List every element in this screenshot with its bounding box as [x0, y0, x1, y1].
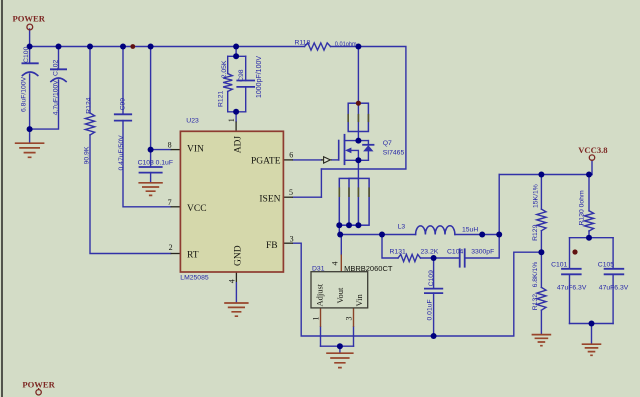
svg-text:Vin: Vin [354, 294, 364, 307]
capacitor C98 branch [245, 56, 247, 80]
node: rail/VIN riser [148, 44, 154, 50]
svg-text:RT: RT [187, 250, 199, 260]
resistor R129 branch [540, 175, 542, 210]
svg-text:R121: R121 [218, 91, 225, 107]
pin 7 stub [171, 206, 181, 208]
svg-text:LM25085: LM25085 [180, 274, 209, 281]
node: rail/C99 [120, 44, 126, 50]
body diode of Q7 (filled) [363, 145, 373, 151]
wire: VIN riser from rail [151, 47, 171, 150]
node: rail/drain string [355, 44, 361, 50]
svg-text:2: 2 [169, 243, 173, 252]
capacitor C105 leg [612, 238, 614, 269]
svg-text:0.1uF: 0.1uF [156, 159, 173, 166]
sense box pin segment 3 [357, 187, 359, 197]
body diode leads [367, 141, 369, 145]
svg-text:6.8uF/100V: 6.8uF/100V [21, 76, 28, 112]
svg-text:8: 8 [168, 141, 172, 150]
maroon marker dots [130, 44, 577, 255]
svg-text:C103: C103 [138, 159, 154, 166]
ground under C100 [15, 143, 45, 157]
sense box left [339, 178, 358, 225]
svg-text:23.2K: 23.2K [421, 249, 439, 256]
svg-text:0.47uF/50V: 0.47uF/50V [118, 135, 125, 171]
blue rotated designators / values [21, 46, 586, 320]
svg-text:3300pF: 3300pF [471, 248, 494, 255]
svg-text:VIN: VIN [187, 145, 204, 155]
top box pin segment center [357, 114, 359, 122]
wire: sense boxes bottom drop [338, 225, 340, 234]
svg-text:4: 4 [330, 262, 339, 266]
ground under C101/C105 [582, 344, 602, 355]
svg-text:3: 3 [344, 317, 353, 321]
U23 pin numbers [168, 118, 294, 283]
ground under D31 [326, 353, 353, 367]
wire: parallel tee top [228, 55, 246, 57]
node: SW row / L3 end [479, 232, 485, 238]
pin 1 stub (ADJ) [235, 122, 237, 132]
svg-text:R118: R118 [295, 40, 311, 47]
pin 3 stub [283, 242, 293, 244]
svg-text:POWER: POWER [22, 379, 55, 389]
D31 brown pin stubs [321, 255, 354, 327]
svg-text:VCC: VCC [187, 204, 207, 214]
svg-text:ISEN: ISEN [259, 195, 280, 205]
capacitor C102 plates [51, 68, 66, 70]
svg-text:C102: C102 [52, 60, 59, 76]
wire: top power rail [30, 46, 305, 48]
capacitor C109 branch [433, 258, 435, 289]
svg-text:47uF6.3V: 47uF6.3V [599, 285, 629, 292]
svg-text:ADJ: ADJ [234, 136, 244, 154]
D31 pin 3 stub [353, 308, 355, 327]
transistor Q7 channel bar [344, 135, 346, 164]
resistor R132 branch [540, 252, 542, 287]
svg-text:6: 6 [289, 150, 293, 159]
pin 5 stub [283, 196, 293, 198]
sense box pin segment 4 [368, 187, 370, 197]
wire: R121/C98 riser from rail [235, 47, 237, 57]
node: FB line / C109 [431, 333, 437, 339]
marker near C101 [572, 249, 577, 254]
capacitor C104 plates [459, 249, 461, 266]
wire: ISEN net riser [293, 196, 321, 198]
wire: GND pin to ground [235, 282, 237, 303]
transistor Q7 drain stub [345, 140, 369, 142]
capacitor C101 leg [569, 238, 571, 269]
PGATE arrow leads [321, 159, 324, 161]
node: caps box top [586, 235, 592, 241]
node: VIN/C103 [148, 147, 154, 153]
olive pin segments on box components [339, 114, 369, 197]
wire: ISEN kelvin line [320, 169, 322, 197]
POWER port bottom [22, 379, 55, 395]
wire: R131 to C104 [421, 257, 460, 259]
svg-text:47uF6.3V: 47uF6.3V [557, 285, 587, 292]
svg-text:GND: GND [234, 245, 244, 266]
node: rail/R121 riser [233, 44, 239, 50]
svg-text:15K/1%: 15K/1% [532, 184, 539, 208]
PGATE direction arrow [324, 157, 331, 163]
node: D31 ground bus [337, 343, 343, 349]
wire: C99 bottom to VCC pin [123, 121, 171, 207]
pin 2 stub [171, 253, 181, 255]
top box pin segment right [367, 114, 369, 122]
resistor R124 branch [89, 47, 91, 114]
resistor R121 branch [227, 56, 229, 73]
node: VCC rail / R130 [586, 172, 592, 178]
wire: rail right of R118 to corner [321, 47, 406, 170]
svg-text:Adjust: Adjust [315, 283, 325, 306]
wire: riser from SW row to VCC rail and down to C104 [465, 175, 500, 259]
diode D31 body [311, 272, 368, 308]
svg-text:C105: C105 [598, 261, 614, 268]
svg-text:C101: C101 [551, 261, 567, 268]
wire: caps box ground stub [591, 324, 593, 344]
VCC3.8 port [578, 145, 608, 161]
wire: FB net down and across [293, 243, 541, 336]
node: caps box bottom [589, 321, 595, 327]
node: R131/C104/C109 [431, 255, 437, 261]
wire: SW node row [339, 234, 415, 236]
svg-text:C98: C98 [238, 69, 245, 82]
svg-text:D31: D31 [312, 266, 325, 273]
svg-text:L3: L3 [398, 223, 406, 230]
marker on rail [130, 44, 135, 49]
pin 4 stub (GND) [235, 272, 237, 282]
capacitor C100 branch wires [29, 47, 31, 64]
wire: main drain string from rail [357, 47, 359, 141]
blue designator / value labels (horizontal) [138, 40, 629, 292]
wire: L3 to corner riser [455, 234, 499, 236]
ground under C103 [138, 183, 162, 196]
svg-text:2.05K: 2.05K [221, 60, 228, 78]
resistor R131 body [398, 254, 421, 261]
op-amp U23 body [180, 131, 283, 272]
svg-text:U23: U23 [186, 117, 199, 124]
POWER port top [12, 14, 45, 30]
wire: ground stub below C100 [29, 129, 31, 142]
svg-text:VCC3.8: VCC3.8 [578, 145, 608, 155]
svg-text:SI7465: SI7465 [383, 150, 405, 157]
node: parallel tee top [233, 53, 239, 59]
svg-text:1: 1 [227, 118, 236, 122]
resistor R118 body [305, 43, 331, 50]
svg-text:PGATE: PGATE [251, 157, 281, 167]
marker on top box [356, 101, 361, 106]
diode D31 pin 4 wire [340, 235, 342, 255]
capacitor C99 branch [122, 47, 124, 115]
sense box pin segment 1 [338, 187, 340, 197]
capacitor C100 plates [22, 62, 37, 64]
top box pin segment left [347, 114, 349, 122]
capacitor C102 branch wires [58, 47, 60, 70]
svg-text:C104: C104 [447, 248, 463, 255]
svg-text:4: 4 [227, 279, 236, 283]
svg-text:C109: C109 [428, 270, 435, 286]
node: VCC rail / R129 [538, 172, 544, 178]
svg-text:5: 5 [289, 188, 293, 197]
pin stubs (dark) [171, 122, 332, 283]
wire: PGATE net to gate [293, 159, 321, 161]
wire: POWER terminal drop [29, 29, 31, 47]
ground under U23 GND [224, 303, 248, 316]
svg-text:3: 3 [290, 235, 294, 244]
wire: parallel tee bottom, down to ADJ pin [228, 111, 246, 113]
inductor L3 [416, 226, 455, 235]
sheet border left edge [1, 0, 3, 397]
wire: R124 bottom to RT pin [90, 135, 171, 254]
body diode cathode bar [363, 144, 373, 146]
svg-text:R132: R132 [532, 294, 539, 310]
transistor Q7 gate bar [338, 141, 340, 160]
resistor R130 branch [588, 175, 590, 211]
wire: R131 branch from SW row [382, 235, 398, 259]
svg-text:R129: R129 [532, 224, 539, 240]
capacitor C103 stub [150, 150, 152, 167]
svg-text:POWER: POWER [12, 14, 45, 24]
svg-text:4.7uF/100V: 4.7uF/100V [52, 80, 59, 116]
svg-text:C99: C99 [119, 98, 126, 111]
pin 6 stub [283, 159, 293, 161]
node: Q7 source [355, 157, 361, 163]
sense box right [349, 178, 369, 225]
transistor Q7 source stub [345, 159, 369, 161]
node: rail/R124 [87, 44, 93, 50]
svg-text:0.01ohm: 0.01ohm [335, 41, 357, 48]
svg-text:Q7: Q7 [383, 140, 392, 147]
svg-text:6.8K/1%: 6.8K/1% [532, 262, 539, 288]
sense box pin segment 2 [348, 187, 350, 197]
svg-text:R124: R124 [86, 97, 93, 113]
svg-text:MBRB2060CT: MBRB2060CT [344, 264, 393, 273]
grounds [15, 143, 602, 367]
node: SW row / D31 pin4 [337, 232, 343, 238]
svg-text:1000pF/100V: 1000pF/100V [256, 56, 263, 98]
svg-text:15uH: 15uH [462, 227, 478, 234]
node: SW row / C104 riser [496, 232, 502, 238]
svg-text:C100: C100 [23, 46, 30, 62]
wire: VCC3.8 terminal drop [591, 160, 593, 174]
pin 8 stub [171, 149, 181, 151]
ground under R132 [532, 335, 552, 346]
svg-text:FB: FB [266, 241, 278, 251]
node: rail/C102 [56, 44, 62, 50]
D31 pin 1 stub [320, 308, 322, 327]
wire: VCC3.8 rail [499, 174, 592, 176]
svg-text:R131: R131 [390, 249, 406, 256]
svg-text:90.9K: 90.9K [83, 146, 90, 164]
output caps box: top [570, 237, 614, 239]
node: Q7 drain [355, 138, 361, 144]
diode D31 pins 1,3 wires and bus [320, 327, 322, 346]
U23 pin names [187, 136, 281, 266]
D31 labels [315, 283, 364, 306]
svg-text:0.01uF: 0.01uF [427, 299, 434, 320]
svg-text:0ohm: 0ohm [579, 190, 586, 207]
node: parallel tee bottom [233, 109, 239, 115]
svg-text:Vout: Vout [335, 287, 345, 304]
transistor Q7 bulk stub [351, 150, 359, 160]
node: C100/C102 bottoms [27, 126, 33, 132]
Q7 bulk arrow (filled) [345, 148, 351, 154]
node: sense box bottoms [336, 222, 342, 228]
wire: Q7 source down to sense boxes [357, 160, 359, 178]
node: rail/C100 [27, 44, 33, 50]
svg-text:R130: R130 [579, 209, 586, 225]
output caps box: bottom [570, 323, 614, 325]
svg-text:1: 1 [311, 317, 320, 321]
D31 pin 4 stub [340, 255, 342, 272]
svg-text:7: 7 [168, 198, 172, 207]
node: SW row / R131 [379, 232, 385, 238]
box component above Q7 [348, 103, 368, 131]
node: FB divider [538, 249, 544, 255]
